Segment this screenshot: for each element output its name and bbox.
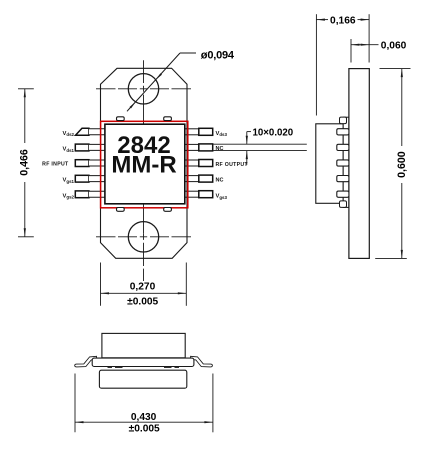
side tab bottom [340,201,347,208]
pin L5 Vgs2 [75,191,105,198]
bottom lid [102,333,185,357]
svg-text:NC: NC [216,146,224,152]
svg-text:MM-R: MM-R [111,152,176,179]
side pin 5 [337,191,349,197]
bottom plate [92,358,194,366]
body ceramic black rect [105,124,185,204]
svg-text:RF OUTPUT: RF OUTPUT [216,162,249,168]
flange outline (octagon) [101,68,188,258]
tab bottom left [117,208,125,212]
svg-text:RF INPUT: RF INPUT [42,162,69,168]
body red outline [101,121,188,208]
svg-text:Vgs1: Vgs1 [63,178,75,184]
pin R3 RF OUTPUT [185,160,213,167]
svg-text:±0.005: ±0.005 [127,296,158,307]
dimension 10x0.020 [214,127,307,164]
svg-text:Vds1: Vds1 [63,147,75,153]
lead right [191,356,213,367]
tab top left [117,117,125,121]
svg-text:0,430: 0,430 [131,412,157,423]
dimension 0,060 [351,39,407,63]
svg-text:0,466: 0,466 [18,149,30,176]
side body [316,124,343,204]
centerline top hole horizontal [96,88,191,90]
pin L4 Vgs1 [75,175,105,182]
dimension 0,600 [375,69,410,259]
side flange [349,69,369,259]
side tab top [340,117,347,124]
svg-text:Vgs3: Vgs3 [216,194,228,200]
svg-text:ø0,094: ø0,094 [201,49,235,61]
leader arrow upper [156,73,162,80]
pin R4 NC [185,175,213,182]
dimension 0,166 [316,14,369,115]
pin R5 Vgs3 [185,191,213,198]
leader arrow lower [130,102,136,109]
side pin 2 [337,144,349,150]
svg-text:0,270: 0,270 [130,282,156,293]
bottom flange [99,370,186,388]
lead left [75,356,97,367]
dimension 0,430 [75,374,213,435]
tab bottom right [164,208,172,212]
dimension 0,466 [18,89,34,237]
side pin 3 [337,160,349,166]
pin R1 Vds3 [185,128,213,135]
pin L3 RF INPUT [75,160,105,167]
dimension 0,270 [101,263,187,308]
svg-text:NC: NC [216,178,224,184]
svg-text:0,060: 0,060 [381,40,407,51]
tab top right [164,117,172,121]
svg-text:0,600: 0,600 [396,151,408,178]
svg-text:±0.005: ±0.005 [129,424,160,435]
centerline vertical main [143,60,145,281]
pin L2 Vds1 [75,144,105,151]
pin L1 Vds2 [76,128,105,135]
mounting hole top [128,74,158,104]
pin stubs under plate [108,366,113,368]
svg-text:Vgs2: Vgs2 [63,193,75,199]
centerline bottom hole horizontal [96,236,191,238]
svg-text:10×0.020: 10×0.020 [253,127,294,138]
leader line hole diameter [127,53,180,111]
svg-text:Vds3: Vds3 [216,131,228,137]
mounting hole bottom [128,222,158,252]
svg-text:0,166: 0,166 [330,15,356,26]
side pin column [343,117,349,207]
side pin 4 [337,176,349,182]
svg-text:Vds2: Vds2 [63,131,75,137]
side pin 1 [337,129,349,135]
pin R2 NC [185,144,213,151]
